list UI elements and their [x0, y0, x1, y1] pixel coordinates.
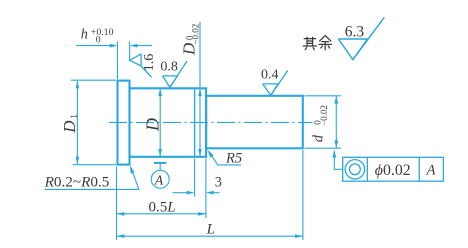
dimension 3: extension lines — [194, 159, 196, 197]
centerline — [109, 121, 313, 123]
svg-text:−0.02: −0.02 — [191, 24, 201, 45]
dimension D 0/-0.02: line + extension above + arrows — [199, 22, 201, 156]
leader R5 — [207, 150, 213, 158]
svg-text:D: D — [143, 118, 163, 132]
datum A symbol — [154, 162, 166, 164]
svg-text:0.5L: 0.5L — [149, 199, 176, 215]
text D 0/-0.02 (rotated) — [180, 24, 201, 56]
svg-text:D: D — [60, 120, 79, 134]
svg-text:1: 1 — [70, 114, 80, 119]
groove line (3mm relief) — [194, 88, 196, 157]
small shaft d outline — [206, 96, 303, 149]
text 1.6 (rotated) — [142, 54, 157, 72]
dimension 3: arrows outside — [173, 192, 189, 194]
svg-text:0.8: 0.8 — [160, 60, 178, 75]
text D1 (rotated) — [60, 114, 80, 134]
svg-text:R0.2~R0.5: R0.2~R0.5 — [44, 174, 110, 191]
concentricity symbol — [345, 160, 364, 179]
svg-text:d: d — [311, 134, 327, 142]
roughness symbol 1.6 (rotated, points left) — [130, 54, 152, 77]
dimension D1: extension lines — [71, 79, 116, 81]
dimension d 0/-0.02: dimension line + arrows — [335, 96, 337, 148]
svg-text:R5: R5 — [225, 150, 242, 166]
text 其余 (drawn strokes) — [303, 36, 331, 50]
svg-text:A: A — [426, 162, 436, 178]
svg-text:−0.02: −0.02 — [319, 105, 329, 126]
text d 0/-0.02 (rotated) — [311, 105, 329, 142]
dimension 0.5L: extension lines — [116, 167, 118, 241]
余 — [320, 36, 331, 41]
roughness symbol 0.4 — [263, 71, 288, 96]
svg-text:h: h — [81, 27, 88, 43]
roughness symbol 6.3 (general) — [338, 17, 384, 59]
roughness symbol 0.8 — [163, 61, 188, 87]
svg-text:L: L — [206, 222, 215, 238]
svg-text:3: 3 — [215, 174, 222, 190]
svg-text:1.6: 1.6 — [142, 54, 157, 72]
dimension h: extension lines — [117, 42, 119, 80]
dimension 0.5L: dimension line + arrows — [117, 213, 205, 215]
dimension d 0/-0.02: extension lines — [305, 95, 342, 97]
middle cylinder D outline — [130, 88, 207, 157]
tolerance frame — [343, 157, 444, 181]
text D (rotated) — [143, 118, 163, 132]
dimension h: dimension line + arrows — [76, 45, 111, 47]
svg-text:A: A — [154, 172, 164, 187]
其 — [306, 37, 308, 46]
dimension D1: dimension line + arrows — [76, 81, 78, 164]
svg-text:0: 0 — [96, 35, 101, 46]
leader R0.2~R0.5 — [130, 165, 135, 173]
dimension L: dimension line + arrows — [117, 235, 302, 237]
svg-text:0.4: 0.4 — [261, 67, 279, 82]
svg-text:6.3: 6.3 — [345, 24, 365, 41]
svg-text:ϕ0.02: ϕ0.02 — [375, 162, 411, 179]
dimension D (plain): dimension line + arrows — [159, 89, 161, 157]
text h +0.10/0 — [81, 27, 114, 46]
tolerance frame leader — [334, 152, 342, 170]
svg-text:+0.10: +0.10 — [91, 27, 114, 38]
flange outline — [118, 81, 130, 165]
dimension L: extension line right — [302, 150, 304, 240]
